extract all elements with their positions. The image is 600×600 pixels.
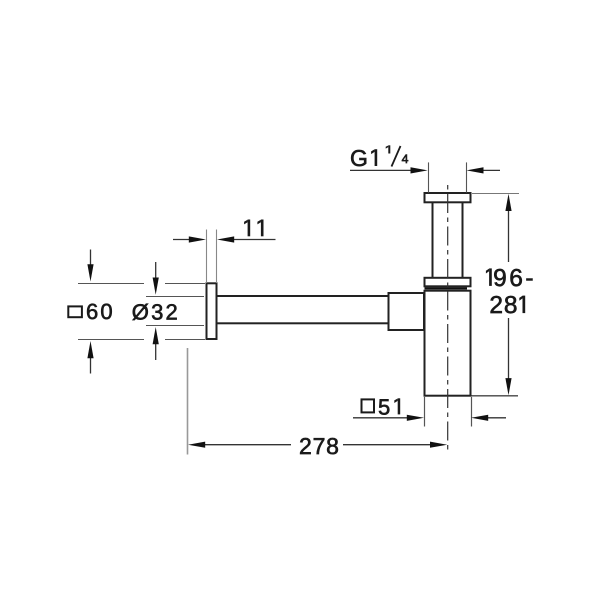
svg-text:96-: 96- — [493, 265, 536, 292]
svg-text:60: 60 — [86, 299, 115, 324]
svg-text:4: 4 — [402, 152, 409, 166]
svg-text:G: G — [350, 145, 368, 171]
svg-text:278: 278 — [299, 433, 340, 459]
svg-text:Ø32: Ø32 — [132, 299, 180, 324]
svg-text:5: 5 — [378, 394, 390, 419]
svg-text:28: 28 — [489, 292, 518, 319]
